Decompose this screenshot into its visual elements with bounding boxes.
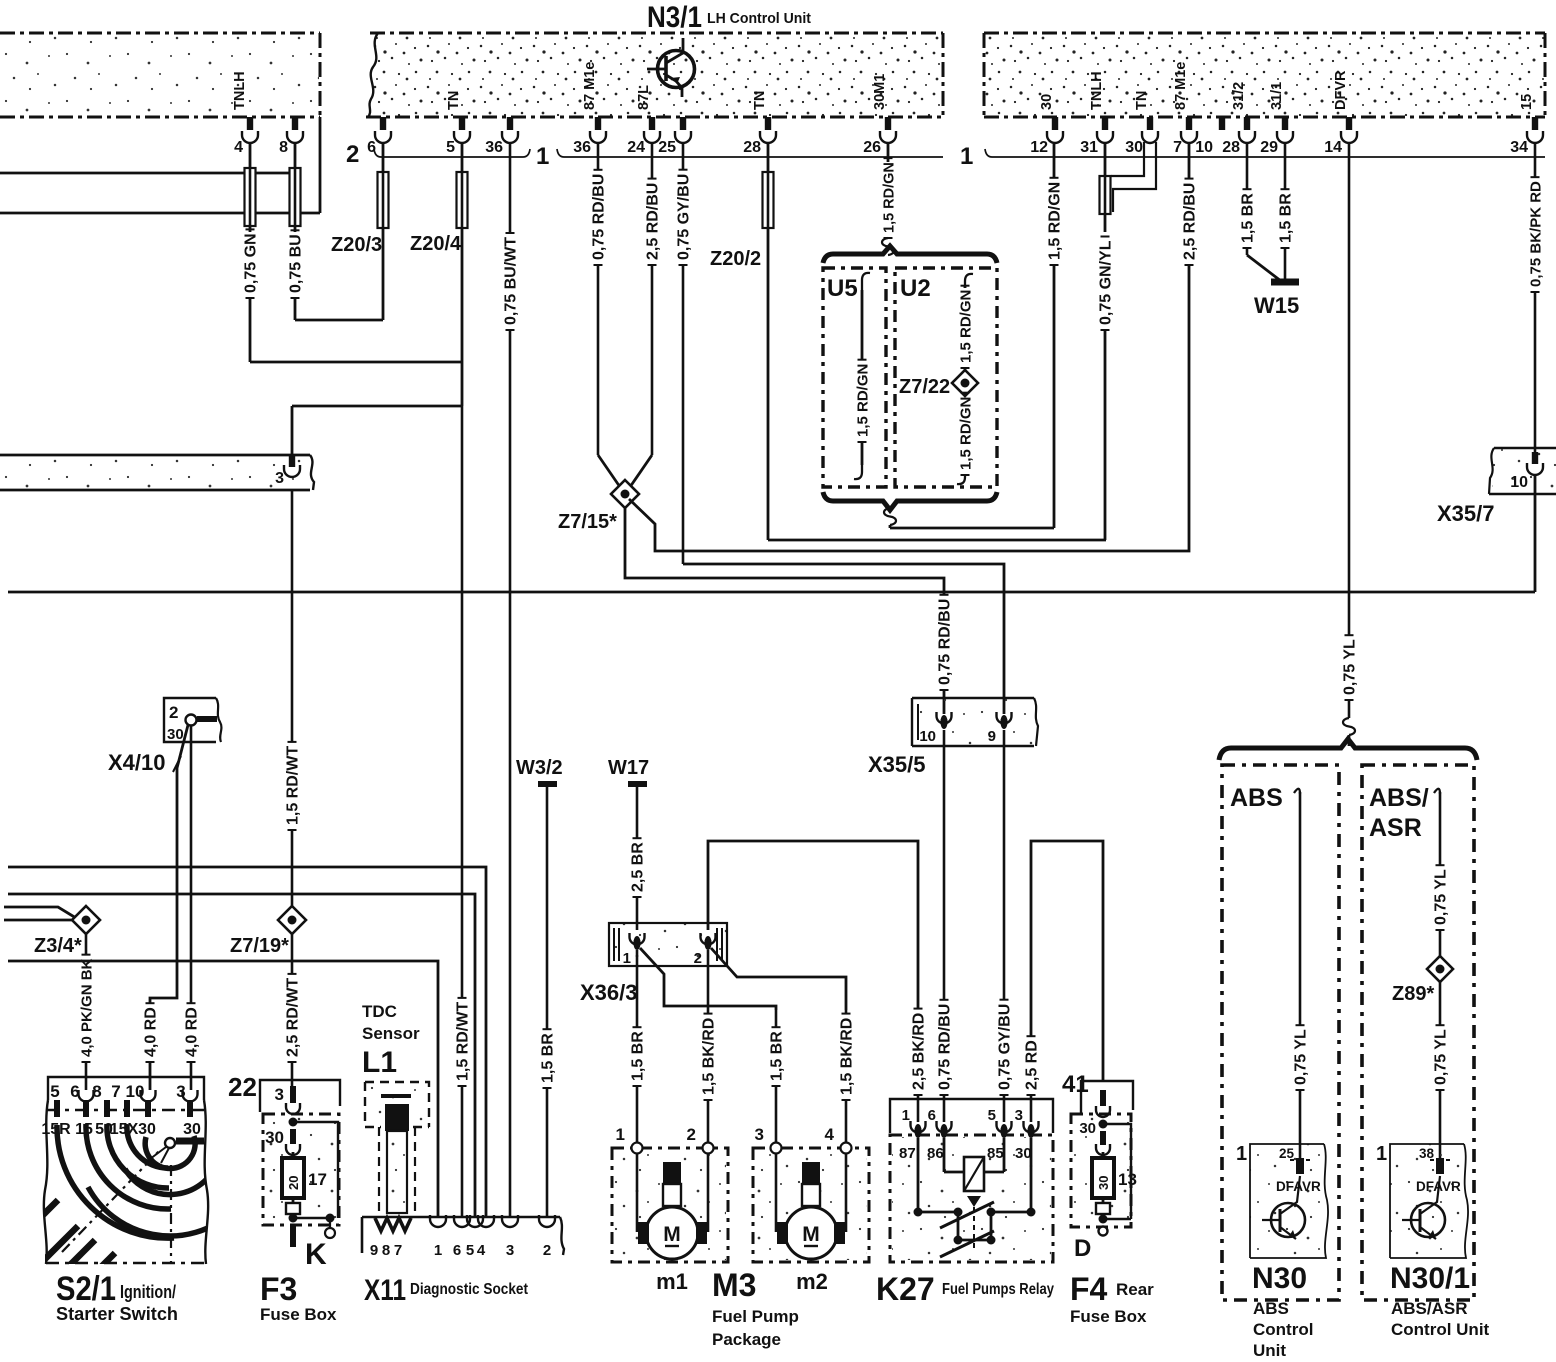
wire 0,75 BU/WT from pin 36 to X11 pin 3	[503, 143, 520, 1218]
svg-text:14: 14	[1324, 139, 1342, 156]
connector group bracket 1 (mid box)	[536, 143, 943, 170]
svg-text:28: 28	[743, 139, 761, 156]
wire Z7/15 to X35/5 pin 10 (0,75 RD/BU)	[625, 508, 954, 714]
wire 0,75 GY/BU from pin 25 to X35/5 pin 9	[676, 143, 1005, 714]
wire 0,75 GN/YL from pin 31 with sleeve	[1098, 143, 1115, 540]
F4 fuse 13	[1092, 1152, 1137, 1198]
ground W15	[1254, 282, 1299, 318]
wire 0,75 RD/BU from pin 36 to Z7/15	[591, 143, 621, 487]
svg-text:Z20/2: Z20/2	[710, 248, 761, 270]
pin 8 (top left strip)	[279, 117, 303, 156]
svg-text:30: 30	[1079, 1120, 1096, 1137]
svg-text:Fuse Box: Fuse Box	[1070, 1307, 1147, 1326]
svg-text:2,5 RD/WT: 2,5 RD/WT	[285, 978, 302, 1057]
svg-text:0,75 GN/YL: 0,75 GN/YL	[1098, 240, 1115, 325]
svg-text:M3: M3	[712, 1267, 756, 1303]
connector X35/7 with pin 10	[1437, 448, 1556, 592]
jumper wires pin 30/TN into sleeve	[1111, 142, 1156, 212]
control unit N3/1 box	[366, 33, 943, 117]
svg-text:TNLH: TNLH	[1089, 71, 1105, 110]
pin 36 (N3/1)	[485, 117, 518, 156]
svg-text:7: 7	[1173, 139, 1182, 156]
S2/1 rotary switch rotor	[145, 1136, 204, 1168]
label S2/1 Ignition/Starter Switch	[56, 1270, 178, 1324]
ground terminal W3/2	[516, 757, 563, 784]
pin 30 (N3/1)	[1125, 91, 1158, 156]
svg-text:22: 22	[228, 1072, 257, 1102]
pin 10 (N3/1 right box, tick only)	[1195, 117, 1225, 156]
svg-text:3: 3	[275, 1085, 284, 1104]
svg-text:2: 2	[543, 1242, 551, 1259]
X36/3 pin 2	[694, 933, 716, 967]
wire 4,0 RD (X4/10 to S2/1 pin 30b)	[184, 726, 201, 1090]
svg-text:1,5 BR: 1,5 BR	[769, 1031, 786, 1081]
X11 pin 3	[502, 1215, 518, 1259]
svg-text:30M1: 30M1	[872, 74, 888, 110]
label N30/1 ABS/ASR Control Unit	[1390, 1262, 1490, 1339]
svg-text:1: 1	[434, 1242, 442, 1259]
svg-text:10: 10	[1195, 139, 1213, 156]
wire 1,5 RD/WT (pin 3 strip to Z7/19)	[285, 490, 302, 906]
svg-text:2,5 RD: 2,5 RD	[1024, 1040, 1041, 1090]
pin 7 (N3/1)	[1173, 62, 1197, 156]
svg-text:1: 1	[1236, 1143, 1247, 1165]
connector sleeve Z20/4 on pin 5 wire	[410, 143, 468, 406]
svg-text:2,5 RD/BU: 2,5 RD/BU	[1182, 183, 1199, 260]
solder point Z7/22	[899, 370, 978, 398]
K27 pin 5 (85)	[987, 1107, 1012, 1162]
svg-text:87: 87	[899, 1145, 916, 1162]
svg-text:2: 2	[169, 703, 178, 722]
svg-text:S2/1: S2/1	[56, 1270, 116, 1308]
X35/5 pin 10	[919, 712, 951, 745]
pin 5 (N3/1)	[446, 91, 470, 156]
S2/1 switch position arcs	[57, 1124, 230, 1238]
svg-text:5: 5	[988, 1107, 996, 1124]
svg-text:X35/7: X35/7	[1437, 501, 1495, 526]
svg-text:10: 10	[919, 728, 936, 745]
svg-text:TN: TN	[1134, 91, 1150, 110]
svg-text:Z7/22: Z7/22	[899, 376, 950, 398]
solder point Z7/19*	[230, 906, 306, 957]
svg-text:30: 30	[1015, 1145, 1032, 1162]
connector group bracket 2	[346, 141, 530, 168]
svg-text:1: 1	[616, 1125, 625, 1144]
svg-text:Control Unit: Control Unit	[1391, 1320, 1490, 1339]
svg-text:31: 31	[1080, 139, 1098, 156]
svg-text:1: 1	[623, 950, 631, 967]
svg-text:K27: K27	[876, 1271, 935, 1307]
svg-text:2: 2	[687, 1125, 696, 1144]
svg-text:Z20/4: Z20/4	[410, 233, 462, 255]
K27 pin 1 (87)	[899, 1107, 926, 1162]
label K27 Fuel Pumps Relay	[876, 1271, 1054, 1307]
wire X35/5 pin9 to K27 pin 5 (0,75 GY/BU)	[997, 730, 1014, 1122]
S2/1 hatch strokes	[40, 1200, 115, 1298]
svg-text:F4: F4	[1070, 1271, 1108, 1307]
svg-text:13: 13	[1118, 1170, 1137, 1189]
transistor inside N3/1	[647, 38, 695, 97]
wire X35/5 pin10 to K27 pin 6 (0,75 RD/BU)	[937, 730, 954, 1122]
svg-text:Fuel Pumps Relay: Fuel Pumps Relay	[942, 1281, 1054, 1298]
wire 1,5 BR (W3/2 to X11 pin 2)	[540, 787, 557, 1218]
svg-text:0,75 GY/BU: 0,75 GY/BU	[676, 174, 693, 260]
svg-text:5: 5	[446, 139, 455, 156]
ignition/starter switch S2/1	[48, 1077, 204, 1101]
svg-text:0,75 GN: 0,75 GN	[243, 233, 260, 293]
pin 4 (top left strip)	[232, 71, 258, 156]
K27 actuator arrow	[967, 1196, 981, 1250]
svg-text:24: 24	[627, 139, 645, 156]
wire 2,5 RD/WT (Z7/19 to F3)	[285, 934, 302, 1086]
wire 2,5 RD/BU from pin 24 to Z7/15	[630, 143, 662, 487]
svg-text:Z89*: Z89*	[1392, 983, 1434, 1005]
svg-text:25: 25	[1279, 1146, 1295, 1161]
svg-text:36: 36	[485, 139, 503, 156]
wire 0,75 YL to Z89	[1433, 789, 1450, 956]
wire 0,75 BK/PK RD from pin 34	[1528, 143, 1545, 452]
pin 12 (N3/1)	[1030, 94, 1063, 156]
X11 pin 1	[430, 1215, 446, 1259]
svg-text:0,75 BU: 0,75 BU	[288, 234, 305, 293]
svg-text:TN: TN	[752, 91, 768, 110]
pin 31 (N3/1)	[1080, 71, 1113, 156]
terminal block X4/10	[108, 698, 221, 775]
wire 1,5 BR from pin 29 to W15	[1278, 143, 1295, 281]
svg-text:Diagnostic Socket: Diagnostic Socket	[410, 1281, 529, 1298]
wire 0,75 GN from pin 4	[243, 143, 463, 362]
wire 1,5 BR from pin 28 to W15	[1240, 143, 1282, 281]
svg-text:0,75 YL: 0,75 YL	[1342, 639, 1359, 695]
svg-text:1,5 BR: 1,5 BR	[630, 1031, 647, 1081]
svg-text:U2: U2	[900, 275, 931, 302]
X11 pin 5	[466, 1215, 483, 1259]
svg-text:17: 17	[308, 1170, 327, 1189]
svg-text:4: 4	[825, 1125, 835, 1144]
shield brace (bottom) of U5/U2	[823, 492, 997, 510]
wire 1,5 RD/GN inside U2 (lower)	[957, 393, 975, 484]
svg-text:1,5 RD/WT: 1,5 RD/WT	[455, 1002, 472, 1081]
svg-text:F3: F3	[260, 1271, 297, 1307]
label M3 Fuel Pump Package	[712, 1267, 799, 1349]
X11 pin 4	[477, 1215, 494, 1259]
K27 pin 6 (86)	[927, 1107, 952, 1162]
svg-text:3: 3	[1015, 1107, 1023, 1124]
ABS brace	[1219, 739, 1477, 760]
svg-text:30: 30	[265, 1128, 284, 1147]
control unit right box (N3/1 part 2)	[984, 33, 1545, 117]
X35/5 pin 9	[988, 712, 1012, 745]
solder point Z89*	[1392, 956, 1453, 1005]
svg-text:30: 30	[183, 1121, 201, 1138]
svg-text:31/2: 31/2	[1231, 82, 1247, 110]
svg-text:0,75 RD/BU: 0,75 RD/BU	[591, 174, 608, 260]
X11 pin 6	[453, 1215, 470, 1259]
svg-text:26: 26	[863, 139, 881, 156]
svg-text:N30/1: N30/1	[1390, 1262, 1470, 1295]
svg-text:0,75 RD/BU: 0,75 RD/BU	[937, 599, 954, 685]
svg-text:1: 1	[902, 1107, 910, 1124]
wire X36/3 pin1 to m2 pin 3 (1,5 BR)	[640, 948, 786, 1144]
label N30 ABS Control Unit	[1252, 1262, 1313, 1360]
K27 relay coil	[944, 1138, 1004, 1191]
svg-text:5: 5	[466, 1242, 474, 1259]
svg-text:34: 34	[1510, 139, 1528, 156]
N3/1 title	[647, 1, 811, 34]
F4 lower contact and terminal D	[1074, 1198, 1131, 1262]
svg-text:1,5 BK/RD: 1,5 BK/RD	[701, 1018, 718, 1095]
connector group bracket 1 (right box)	[960, 143, 1545, 170]
shield brace (top) of U5/U2	[823, 246, 997, 263]
wire 0,75 YL Z89 to N30/1	[1433, 982, 1450, 1158]
svg-text:X36/3: X36/3	[580, 980, 638, 1005]
F3 node 30	[265, 1118, 338, 1219]
wire 0,75 YL to N30	[1293, 789, 1310, 1158]
svg-text:ASR: ASR	[1369, 814, 1422, 842]
svg-text:X11: X11	[364, 1274, 406, 1307]
svg-text:4,0 RD: 4,0 RD	[143, 1007, 160, 1057]
connector strip (top left, instrument cluster)	[0, 33, 320, 117]
wire 4,0 PK/GN BK (Z3/4 to S2/1 pin 6)	[79, 934, 96, 1090]
svg-text:4: 4	[234, 139, 243, 156]
svg-text:Package: Package	[712, 1330, 781, 1349]
svg-text:1,5 RD/GN: 1,5 RD/GN	[1047, 182, 1064, 260]
svg-text:ABS/: ABS/	[1369, 784, 1429, 812]
pin 26 (N3/1)	[863, 74, 896, 156]
connector sleeve Z20/2 on pin 28 wire	[710, 143, 1106, 540]
instrument cluster U2 box	[895, 268, 997, 487]
svg-text:10: 10	[1510, 474, 1528, 491]
solder point Z3/4* with feed stubs	[4, 906, 100, 957]
svg-text:8: 8	[279, 139, 288, 156]
transistor inside N30/1	[1402, 1176, 1445, 1239]
svg-text:9: 9	[988, 728, 996, 745]
svg-text:M: M	[802, 1223, 820, 1246]
label X11 Diagnostic Socket	[364, 1274, 529, 1307]
svg-text:28: 28	[1222, 139, 1240, 156]
K27 switch contacts	[914, 1138, 1036, 1257]
svg-text:2: 2	[346, 141, 359, 168]
wire 1,5 RD/GN inside U5	[854, 273, 872, 479]
wire X36/3 pin1 to m1 pin 1 (1,5 BR)	[630, 950, 647, 1144]
F3 pin 3	[275, 1085, 300, 1114]
svg-text:U5: U5	[827, 275, 858, 302]
S2/1 dash-dot guide lines	[62, 1150, 171, 1262]
svg-text:5: 5	[50, 1082, 59, 1101]
fuel gauge U5 box	[823, 268, 886, 487]
svg-text:1,5 BR: 1,5 BR	[1278, 193, 1295, 243]
svg-text:30: 30	[1096, 1176, 1111, 1190]
svg-text:38: 38	[1419, 1146, 1435, 1161]
bus wire 1 (to X11 pin 4)	[8, 867, 486, 1218]
connector X35/5	[868, 698, 1038, 777]
pin 25 (N3/1)	[658, 117, 691, 156]
svg-text:4,0 PK/GN BK: 4,0 PK/GN BK	[79, 958, 96, 1057]
svg-text:3: 3	[275, 470, 284, 487]
bus wire 2 (to X11 pin 5)	[8, 894, 475, 1218]
wire 4,0 RD (X4/10 to S2/1 pin 30a)	[143, 725, 189, 1090]
svg-text:ABS/ASR: ABS/ASR	[1391, 1299, 1468, 1318]
svg-text:LH Control Unit: LH Control Unit	[707, 10, 811, 27]
svg-text:0,75 YL: 0,75 YL	[1433, 869, 1450, 925]
svg-text:N3/1: N3/1	[647, 1, 702, 34]
connector sleeve Z20/3 on pin 6 wire	[331, 143, 389, 320]
svg-text:30: 30	[1039, 94, 1055, 110]
wire 1,5 RD/GN from pin 26 to U5/U2	[882, 143, 898, 255]
svg-text:0,75 RD/BU: 0,75 RD/BU	[937, 1004, 954, 1090]
wire from pin 3 strip to X11 pin 6 (1,5 RD/WT)	[292, 406, 472, 1218]
svg-text:7: 7	[111, 1082, 120, 1101]
svg-text:0,75 BU/WT: 0,75 BU/WT	[503, 237, 520, 325]
connector X36/3	[580, 923, 727, 1005]
svg-text:m1: m1	[656, 1269, 688, 1294]
svg-text:30: 30	[167, 726, 184, 743]
svg-text:0,75 YL: 0,75 YL	[1433, 1029, 1450, 1085]
connector strip (left, middle) with pin 3	[0, 455, 314, 490]
svg-text:87L: 87L	[636, 85, 652, 110]
F3 fuse 17	[282, 1152, 327, 1198]
wire harness lines from left strip	[0, 117, 320, 213]
svg-text:Starter Switch: Starter Switch	[56, 1304, 178, 1324]
svg-text:X4/10: X4/10	[108, 750, 166, 775]
wire U2 bottom to pin 12 (1,5 RD/GN)	[884, 143, 1064, 528]
wire K27 pin 3 to F4 (2,5 RD)	[1024, 841, 1104, 1122]
svg-text:15: 15	[1519, 94, 1535, 110]
pin 28 (N3/1)	[743, 91, 776, 156]
ABS control unit box	[1222, 765, 1339, 1300]
ABS/ASR control unit box	[1362, 765, 1474, 1300]
X11 pin 2	[539, 1215, 555, 1259]
fuel pump m1 internals (motor M)	[637, 1153, 708, 1259]
svg-text:ABS: ABS	[1253, 1299, 1289, 1318]
S2/1 border and labels	[41, 1100, 208, 1264]
svg-text:L1: L1	[362, 1046, 397, 1079]
K27 pin 3 (30)	[1015, 1107, 1039, 1162]
fuel pump m1 box	[612, 1125, 728, 1262]
control unit connector N30/1	[1376, 1143, 1468, 1258]
svg-text:1,5 BK/RD: 1,5 BK/RD	[839, 1018, 856, 1095]
wire 0,75 BU from pin 8	[288, 143, 384, 320]
svg-text:87 M1e: 87 M1e	[1173, 62, 1189, 110]
svg-text:2,5 BR: 2,5 BR	[630, 842, 647, 892]
svg-text:4,0 RD: 4,0 RD	[184, 1007, 201, 1057]
svg-text:DFVR: DFVR	[1333, 70, 1349, 110]
svg-text:9: 9	[370, 1242, 378, 1259]
label F4 Rear Fuse Box	[1070, 1271, 1154, 1326]
svg-text:2,5 RD/BU: 2,5 RD/BU	[645, 183, 662, 260]
svg-text:25: 25	[658, 139, 676, 156]
ground terminal W17	[608, 757, 649, 784]
svg-text:Z7/15*: Z7/15*	[558, 511, 617, 533]
svg-text:1,5 RD/WT: 1,5 RD/WT	[285, 746, 302, 825]
svg-text:7: 7	[394, 1242, 402, 1259]
svg-text:6: 6	[928, 1107, 936, 1124]
fuel pump m2 box	[753, 1125, 869, 1262]
wire Z7/15 to pin 7 (2,5 RD/BU)	[629, 143, 1199, 551]
S2/1 input hooks	[79, 1090, 198, 1102]
diagnostic socket X11 body	[362, 1217, 564, 1255]
svg-text:ABS: ABS	[1230, 784, 1283, 812]
svg-text:Z7/19*: Z7/19*	[230, 935, 289, 957]
main interior bus wire	[8, 591, 1535, 594]
svg-text:12: 12	[1030, 139, 1048, 156]
svg-text:Ignition/: Ignition/	[120, 1282, 176, 1302]
svg-text:0,75 BK/PK RD: 0,75 BK/PK RD	[1528, 181, 1545, 287]
svg-text:4: 4	[477, 1242, 486, 1259]
pin 6 (N3/1)	[367, 117, 391, 156]
svg-text:86: 86	[927, 1145, 944, 1162]
bus wire 3 (to X11 pin 1)	[8, 961, 438, 1218]
svg-text:Z20/3: Z20/3	[331, 234, 382, 256]
svg-text:1: 1	[1376, 1143, 1387, 1165]
svg-text:TNLH: TNLH	[232, 71, 248, 110]
svg-text:41: 41	[1062, 1071, 1089, 1098]
svg-text:X35/5: X35/5	[868, 752, 926, 777]
svg-text:Z3/4*: Z3/4*	[34, 935, 82, 957]
svg-text:D: D	[1074, 1235, 1091, 1262]
fuel pump m2 internals (motor M)	[776, 1153, 846, 1259]
svg-text:1: 1	[960, 143, 973, 170]
svg-text:K: K	[305, 1238, 327, 1271]
svg-text:3: 3	[755, 1125, 764, 1144]
transistor inside N30	[1262, 1176, 1305, 1239]
X36/3 pin 1	[623, 933, 645, 967]
wire X36/3 pin2 up to K27 pin 1 (2,5 BK/RD)	[708, 841, 928, 1122]
wire 1,5 RD/GN inside U2 (upper)	[958, 274, 975, 370]
F4 pin (top)	[1096, 1090, 1110, 1117]
svg-text:2,5 BK/RD: 2,5 BK/RD	[911, 1013, 928, 1090]
svg-text:31/1: 31/1	[1269, 82, 1285, 110]
svg-text:85: 85	[987, 1145, 1004, 1162]
svg-text:TDC: TDC	[362, 1002, 397, 1021]
svg-text:N30: N30	[1252, 1262, 1307, 1295]
pin 34 (N3/1)	[1510, 94, 1543, 156]
F3 lower contact and terminal K	[286, 1198, 335, 1271]
fuse box F3 housing	[228, 1072, 340, 1225]
pin 24 (N3/1)	[627, 85, 660, 156]
solder point Z7/15*	[558, 480, 639, 533]
relay K27 housing	[890, 1099, 1053, 1262]
svg-text:W3/2: W3/2	[516, 757, 563, 779]
svg-text:Rear: Rear	[1116, 1280, 1154, 1299]
wire X36/3 pin2 to m1 pin 2 (1,5 BK/RD)	[701, 950, 718, 1144]
pin 29 (N3/1)	[1260, 82, 1293, 156]
svg-text:Unit: Unit	[1253, 1341, 1286, 1360]
wire 2,5 BR (W17 to X36/3 pin 1)	[630, 787, 647, 930]
pin 28 (N3/1)	[1222, 82, 1255, 156]
F4 node 30	[1079, 1120, 1131, 1220]
svg-text:1,5 RD/GN: 1,5 RD/GN	[958, 397, 975, 470]
TDC sensor L1	[362, 1002, 429, 1213]
svg-text:Sensor: Sensor	[362, 1024, 420, 1043]
svg-text:0,75 YL: 0,75 YL	[1293, 1029, 1310, 1085]
svg-text:M: M	[663, 1223, 681, 1246]
svg-text:m2: m2	[796, 1269, 828, 1294]
S2/1 terminal blades	[54, 1100, 193, 1117]
svg-text:1: 1	[536, 143, 549, 170]
svg-text:0,75 GY/BU: 0,75 GY/BU	[997, 1004, 1014, 1090]
label F3 Fuse Box	[260, 1271, 337, 1324]
svg-text:15X: 15X	[110, 1121, 139, 1138]
svg-text:W15: W15	[1254, 293, 1299, 318]
svg-text:3: 3	[506, 1242, 514, 1259]
svg-text:1,5 RD/GN: 1,5 RD/GN	[882, 162, 898, 233]
svg-text:87 M1e: 87 M1e	[582, 62, 598, 110]
svg-text:1,5 BR: 1,5 BR	[1240, 193, 1257, 243]
control unit connector N30	[1236, 1143, 1328, 1258]
wire X36/3 pin2 to m2 pin 4 (1,5 BK/RD)	[711, 948, 856, 1144]
svg-text:Fuse Box: Fuse Box	[260, 1305, 337, 1324]
